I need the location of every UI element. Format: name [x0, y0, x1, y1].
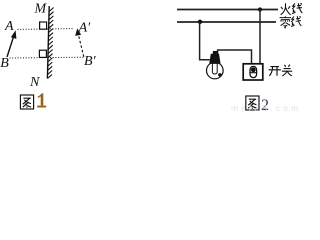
live wire (huo xian): [177, 9, 278, 11]
right-angle square on B normal: [39, 50, 46, 57]
wire from neutral wire down to lamp: [200, 22, 210, 60]
label ling xian (neutral wire): [280, 16, 302, 28]
normal from A (dotted): [18, 28, 74, 31]
image A'B' (dashed, arrow at A'): [78, 35, 83, 57]
线: [291, 16, 301, 26]
零: [280, 16, 291, 28]
wire from live wire down to switch: [259, 10, 261, 64]
label kai guan (switch): [269, 65, 293, 76]
caption 图1 : glyph 图: [20, 95, 33, 109]
object AB (arrow from B to A): [7, 37, 14, 58]
switch toggle pill: [250, 66, 257, 77]
mirror hatching: [48, 8, 54, 79]
lamp base cap: [210, 54, 220, 63]
svg-text:A: A: [4, 19, 14, 34]
关: [282, 65, 292, 76]
开: [269, 67, 281, 76]
svg-text:B: B: [0, 56, 9, 71]
svg-text:N: N: [29, 75, 40, 90]
lamp cap nub: [213, 51, 218, 55]
neutral wire (ling xian): [177, 21, 276, 23]
caption 图2 : glyph 图: [246, 96, 259, 110]
火: [281, 3, 291, 15]
switch toggle mid line: [250, 72, 257, 74]
normal from B (dotted): [10, 56, 84, 59]
svg-text:M: M: [34, 2, 48, 17]
junction dot on neutral wire: [198, 20, 202, 24]
wire from lamp top to switch left terminal: [218, 50, 252, 64]
switch box: [243, 64, 263, 80]
right-angle square on A normal: [40, 22, 47, 29]
filament support dot: [218, 73, 221, 76]
线: [292, 3, 302, 13]
svg-text:A′: A′: [78, 21, 92, 36]
label huo xian (fire wire): [281, 3, 303, 15]
switch toggle ball: [251, 67, 256, 72]
mirror MN: [47, 6, 49, 79]
svg-text:msf25.com: msf25.com: [231, 103, 301, 112]
svg-text:B′: B′: [84, 54, 97, 69]
caption digit 1: [37, 93, 46, 107]
lamp filament: [212, 64, 217, 75]
lamp bulb glass: [207, 62, 224, 79]
junction dot on live wire: [258, 7, 262, 11]
